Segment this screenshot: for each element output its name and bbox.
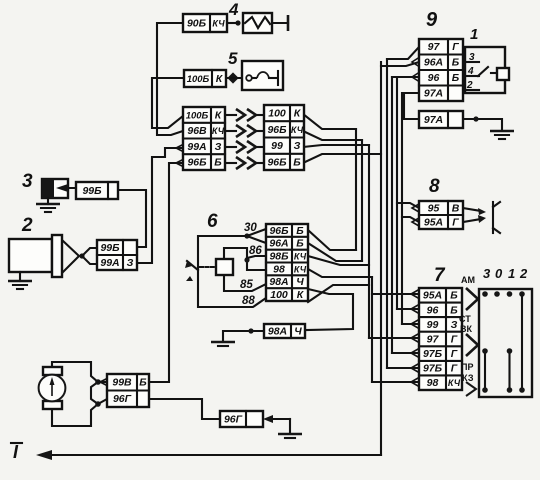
svg-text:99А: 99А [100,257,119,269]
svg-text:96А: 96А [269,238,288,250]
svg-text:99Б: 99Б [100,242,120,254]
svg-text:96Б: 96Б [267,156,287,168]
svg-text:96Г: 96Г [224,413,243,425]
svg-text:95А: 95А [424,216,443,228]
svg-text:Б: Б [452,72,460,84]
svg-text:9: 9 [426,9,438,31]
svg-text:Б: Б [450,290,458,302]
svg-text:В: В [452,202,460,214]
svg-text:98Б: 98Б [269,251,289,263]
svg-text:КЧ: КЧ [294,264,307,274]
svg-text:97А: 97А [424,114,443,126]
svg-text:2: 2 [466,80,473,91]
svg-text:97Б: 97Б [423,348,443,360]
svg-text:КЧ: КЧ [212,18,225,28]
svg-text:Б: Б [293,156,301,168]
svg-text:97А: 97А [424,88,443,100]
svg-text:97: 97 [427,333,440,345]
svg-text:100Б: 100Б [187,74,210,85]
svg-text:100: 100 [270,289,288,301]
svg-text:97Б: 97Б [423,363,443,375]
svg-text:3: 3 [469,52,475,63]
svg-text:Г: Г [451,363,458,375]
svg-text:З: З [451,319,458,331]
svg-text:2: 2 [21,215,33,236]
svg-text:3: 3 [22,171,33,192]
svg-text:97: 97 [428,41,441,53]
svg-text:3: 3 [483,266,491,281]
svg-text:КЧ: КЧ [294,252,307,262]
svg-text:2: 2 [519,266,528,281]
svg-text:99А: 99А [187,141,206,153]
svg-text:98А: 98А [269,276,288,288]
svg-text:КЧ: КЧ [291,125,304,135]
svg-text:Б: Б [450,304,458,316]
svg-text:98: 98 [427,377,439,389]
svg-text:ВК: ВК [460,324,472,334]
svg-text:86: 86 [249,245,262,257]
svg-text:5: 5 [228,49,238,68]
svg-text:4: 4 [467,66,474,77]
svg-text:Г: Г [451,348,458,360]
svg-text:Г: Г [452,41,459,53]
svg-text:100: 100 [268,108,286,120]
svg-text:96Б: 96Б [187,157,207,169]
svg-text:95А: 95А [423,290,442,302]
svg-text:1: 1 [470,26,478,43]
svg-text:З: З [127,257,134,269]
svg-text:КЗ: КЗ [462,373,474,383]
svg-text:96А: 96А [424,57,443,69]
svg-text:7: 7 [434,265,446,286]
svg-text:96Б: 96Б [267,124,287,136]
svg-text:ПР: ПР [461,362,473,372]
svg-text:0: 0 [495,266,503,281]
svg-text:З: З [294,140,301,152]
svg-text:100Б: 100Б [186,110,209,121]
svg-text:Б: Б [452,57,460,69]
svg-text:99: 99 [427,319,439,331]
svg-text:Г: Г [451,333,458,345]
svg-text:Г: Г [452,216,459,228]
svg-text:85: 85 [240,279,253,291]
svg-text:99Б: 99Б [82,185,102,197]
svg-text:6: 6 [207,211,218,232]
svg-text:96: 96 [428,72,440,84]
svg-text:98А: 98А [268,325,287,337]
svg-text:Б: Б [139,377,147,389]
svg-text:8: 8 [429,176,440,197]
svg-text:30: 30 [244,222,257,234]
svg-text:88: 88 [242,295,255,307]
svg-text:Ч: Ч [294,325,302,337]
svg-text:90Б: 90Б [187,17,207,29]
svg-text:96Г: 96Г [113,393,132,405]
svg-text:4: 4 [228,0,239,19]
svg-text:99: 99 [271,140,283,152]
svg-text:96: 96 [427,304,439,316]
svg-text:1: 1 [508,266,515,281]
svg-text:95: 95 [428,202,440,214]
svg-text:I: I [13,442,19,462]
svg-text:99В: 99В [112,377,132,389]
svg-text:96В: 96В [187,125,207,137]
svg-text:98: 98 [273,263,285,275]
svg-text:Б: Б [296,225,304,237]
svg-text:96Б: 96Б [269,225,289,237]
svg-text:Ч: Ч [296,276,304,288]
svg-text:КЧ: КЧ [448,378,461,388]
svg-text:АМ: АМ [461,275,475,285]
svg-text:З: З [215,141,222,153]
svg-text:Б: Б [296,238,304,250]
svg-text:СТ: СТ [459,314,471,324]
svg-text:КЧ: КЧ [212,126,225,136]
svg-text:Б: Б [214,157,222,169]
